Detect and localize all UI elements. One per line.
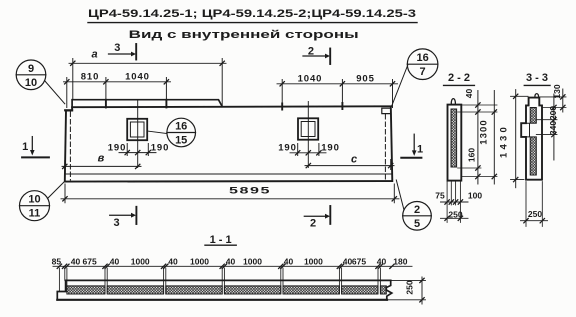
section 2-2 dim ticks 1300 <box>492 110 496 179</box>
section mark 3 top <box>109 53 132 55</box>
section 1-1 keramzit segment 1 <box>67 286 105 294</box>
svg-text:40: 40 <box>464 89 474 99</box>
svg-text:3 - 3: 3 - 3 <box>526 72 548 84</box>
section 3-3 text 340 <box>548 121 558 135</box>
svg-text:250: 250 <box>448 209 462 219</box>
label c <box>351 154 357 166</box>
dim 905 text <box>356 74 375 85</box>
section 3-3 title <box>526 72 548 84</box>
svg-text:10: 10 <box>28 194 40 206</box>
dim a extension lines <box>73 59 222 107</box>
svg-text:7: 7 <box>420 66 426 78</box>
svg-text:40: 40 <box>110 256 120 266</box>
leader 2/5 <box>396 180 404 210</box>
section 2-2 text 1300 <box>478 119 489 145</box>
svg-text:1040: 1040 <box>125 71 150 82</box>
section 2-2 bottom dim line 75/100 <box>441 201 469 203</box>
section 3-3 title underline <box>524 84 550 86</box>
svg-text:1000: 1000 <box>190 256 209 266</box>
svg-text:190: 190 <box>151 142 170 153</box>
opening square 2 inner <box>301 122 315 137</box>
marker circle 9/10 <box>16 60 46 90</box>
dim c ticks <box>306 163 393 167</box>
dim 190 sq1 right text <box>151 142 170 153</box>
svg-text:810: 810 <box>81 71 100 82</box>
section 3-3 keramzit strip upper <box>530 108 536 124</box>
dim a ticks <box>71 61 225 65</box>
leader 10/11 <box>48 182 65 199</box>
svg-text:15: 15 <box>175 135 187 147</box>
section 1-1 gap separators <box>105 268 380 294</box>
svg-text:1000: 1000 <box>243 256 262 266</box>
section 1-1 text 250 <box>405 280 415 294</box>
svg-text:190: 190 <box>321 142 340 153</box>
section 3-3 keramzit strip lower <box>530 137 536 175</box>
section 2-2 dim ticks 40/160 <box>476 103 480 179</box>
marker circle 2/5 <box>403 202 432 231</box>
section 1-1 keramzit segment 3 <box>166 286 222 294</box>
opening square 2 outer <box>298 118 318 139</box>
section 2-2 dim line 40/160 <box>477 91 479 185</box>
section 3-3 right ext lines <box>536 97 566 135</box>
dim 190 sq1 left text <box>108 142 127 153</box>
section 3-3 text 250 <box>528 209 542 219</box>
section 2-2 body <box>448 105 462 181</box>
svg-text:1: 1 <box>22 141 28 153</box>
section 3-3 text 1430 <box>499 124 510 158</box>
dim b ticks <box>63 164 140 168</box>
svg-text:16: 16 <box>175 121 187 133</box>
opening square 1 outer <box>127 119 147 140</box>
section 1-1 body left profile <box>57 280 65 299</box>
section 2-2 title <box>448 72 470 84</box>
svg-text:5895: 5895 <box>229 186 271 197</box>
section 2-2 right ext lines <box>458 105 497 177</box>
section mark 3 bottom <box>110 214 131 216</box>
section 3-3 dim line 1430 <box>515 90 517 188</box>
section 3-3 text 200 <box>548 106 558 120</box>
section mark 2 top <box>303 55 325 57</box>
section 1-1 title <box>210 234 232 246</box>
section 3-3 bottom ext lines <box>526 182 542 227</box>
hidden dashed line right <box>384 115 386 181</box>
section 3-3 dim ticks 130 <box>561 95 565 110</box>
leader 16/15 <box>147 131 167 134</box>
svg-text:250: 250 <box>528 209 542 219</box>
centerline square 1 <box>137 100 139 168</box>
marker circle 10/11 <box>20 191 50 221</box>
title line 1 <box>88 8 416 20</box>
section 3-3 bottom dim ticks <box>524 219 545 223</box>
dim 190 sq2 left text <box>278 142 297 153</box>
section 2-2 title underline <box>444 84 475 86</box>
svg-text:130: 130 <box>552 84 562 98</box>
svg-text:а: а <box>92 49 98 61</box>
section 1-1 dim ticks <box>57 264 394 268</box>
svg-text:905: 905 <box>356 74 375 85</box>
section 1-1 right ext lines <box>388 280 426 299</box>
svg-text:40: 40 <box>71 256 81 266</box>
svg-text:160: 160 <box>467 148 477 162</box>
dim 5895 ticks <box>63 197 397 201</box>
section mark 1 right <box>413 134 415 151</box>
svg-text:11: 11 <box>29 208 41 220</box>
svg-text:75: 75 <box>435 191 445 201</box>
svg-text:85: 85 <box>52 256 62 266</box>
svg-text:1000: 1000 <box>131 256 150 266</box>
label b <box>98 153 105 165</box>
panel left step mark <box>65 109 72 111</box>
section 3-3 bottom dim line 250 <box>521 220 548 222</box>
section 2-2 bottom dim ticks 1 <box>445 200 463 204</box>
section 3-3 left ext lines <box>511 96 529 179</box>
panel body outline <box>65 106 393 181</box>
section mark 2 bottom <box>304 215 325 217</box>
svg-text:в: в <box>98 153 105 165</box>
svg-text:40: 40 <box>284 256 294 266</box>
svg-text:190: 190 <box>278 142 297 153</box>
dim 1040/905 extension lines <box>282 80 392 109</box>
section 1-1 keramzit segment 5 <box>283 286 339 294</box>
section 2-2 lifting loop <box>451 99 455 105</box>
svg-text:675: 675 <box>83 256 97 266</box>
section 1-1 title underline <box>205 244 236 246</box>
dim 1040/905 line <box>277 83 398 85</box>
section 2-2 text 100 <box>468 191 482 201</box>
dim 810/1040 ticks <box>65 80 169 84</box>
section 2-2 bottom dim line 250 <box>441 217 469 219</box>
dim 810 text <box>81 71 100 82</box>
svg-text:675: 675 <box>352 256 366 266</box>
svg-text:5: 5 <box>414 218 420 230</box>
leader 16/7 <box>392 65 408 107</box>
top edge tick marks <box>282 103 342 110</box>
svg-text:200: 200 <box>548 106 558 120</box>
marker circle 16/7 <box>407 49 438 80</box>
dim 5895 text <box>229 186 271 197</box>
top tab strip <box>72 100 222 108</box>
dim 190 sq2 right text <box>321 142 340 153</box>
dim 1040 left text <box>125 71 150 82</box>
dim 190/190 square1 line <box>119 144 156 156</box>
section 2-2 dim line 1300 <box>493 91 495 185</box>
section 3-3 dim line 130 <box>562 89 564 112</box>
dim c line <box>305 160 394 170</box>
dim 190/190 square2 line <box>290 144 326 156</box>
section 1-1 keramzit segment 2 <box>107 286 163 294</box>
svg-text:1: 1 <box>417 143 423 155</box>
section 2-2 bottom ext lines <box>447 182 460 223</box>
dim 190/190 square1 ticks <box>125 150 151 154</box>
svg-text:40: 40 <box>377 256 387 266</box>
svg-text:40: 40 <box>168 256 178 266</box>
section 1-1 dim ticks 250 <box>420 278 424 302</box>
svg-text:2: 2 <box>310 217 316 229</box>
svg-text:250: 250 <box>405 280 415 294</box>
section 1-1 keramzit segment 6 <box>342 286 378 294</box>
svg-text:340: 340 <box>548 121 558 135</box>
section 3-3 dim line 200/340 <box>553 94 555 160</box>
svg-text:ЦР4-59.14.25-1; ЦР4-59.14.25-2: ЦР4-59.14.25-1; ЦР4-59.14.25-2;ЦР4-59.14… <box>88 8 416 20</box>
svg-text:Вид с внутренней стороны: Вид с внутренней стороны <box>129 29 359 41</box>
section 1-1 body bottom edge <box>57 299 387 301</box>
section 2-2 keramzit strip <box>451 109 457 167</box>
section 2-2 bottom dim ticks 250 <box>445 216 463 220</box>
label a <box>92 49 98 61</box>
section mark 1 left <box>31 137 33 151</box>
panel inner bottom line <box>65 173 392 175</box>
svg-text:3: 3 <box>114 42 120 54</box>
dim 810/1040 extension lines <box>67 78 167 108</box>
dim 1040 right text <box>298 74 323 85</box>
svg-text:1430: 1430 <box>499 124 510 158</box>
svg-text:190: 190 <box>108 142 127 153</box>
svg-text:9: 9 <box>28 63 34 75</box>
section 3-3 dim ticks 200/340 <box>552 105 556 137</box>
opening square 1 inner <box>130 122 144 137</box>
section 1-1 dim line 250 <box>421 277 423 304</box>
svg-text:с: с <box>351 154 357 166</box>
dim 190/190 square2 ticks <box>296 151 322 155</box>
leader 9/10 <box>45 81 65 104</box>
section 1-1 extension lines top <box>59 268 67 292</box>
svg-text:40: 40 <box>226 256 236 266</box>
section 2-2 text 40 <box>464 89 474 99</box>
section 1-1 body top edge <box>66 279 391 281</box>
svg-text:16: 16 <box>416 52 428 64</box>
dim 5895 line <box>61 198 399 200</box>
top-right corner notch <box>382 108 391 113</box>
section 1-1 keramzit segment 7 <box>380 286 386 294</box>
dim 1040/905 ticks <box>280 82 395 86</box>
svg-text:100: 100 <box>468 191 482 201</box>
section 1-1 dim texts <box>52 256 408 266</box>
svg-text:1 - 1: 1 - 1 <box>210 234 232 246</box>
hidden dashed line left <box>69 112 71 180</box>
svg-text:1300: 1300 <box>478 119 489 145</box>
tab separator marks <box>106 100 166 108</box>
svg-text:1000: 1000 <box>304 256 323 266</box>
section 2-2 text 75 <box>435 191 445 201</box>
svg-text:180: 180 <box>393 256 407 266</box>
dim b line <box>62 161 141 171</box>
dim 5895 extension lines <box>65 184 394 203</box>
section 3-3 body <box>521 98 542 180</box>
svg-text:2: 2 <box>414 204 420 216</box>
svg-text:3: 3 <box>113 217 119 229</box>
section 2-2 text 250 <box>448 209 462 219</box>
section 3-3 text 130 <box>552 84 562 98</box>
svg-text:10: 10 <box>25 77 37 89</box>
section 1-1 dim line <box>53 265 412 267</box>
title line 2 <box>129 29 359 41</box>
dim 810/1040 line <box>64 81 171 83</box>
section 1-1 keramzit segment 4 <box>224 286 280 294</box>
marker circle 16/15 <box>167 118 196 147</box>
svg-text:1040: 1040 <box>298 74 323 85</box>
title underline <box>88 22 417 24</box>
section 3-3 lifting loop <box>535 94 539 98</box>
section 1-1 body right tongue <box>386 280 392 299</box>
svg-text:2: 2 <box>308 45 314 57</box>
dim a line <box>69 62 226 64</box>
section 2-2 text 160 <box>467 148 477 162</box>
section 3-3 dim ticks 1430 <box>514 94 518 182</box>
svg-text:2 - 2: 2 - 2 <box>448 72 470 84</box>
centerline square 2 <box>307 102 309 168</box>
section 3-3 notch inner lines <box>526 123 530 137</box>
